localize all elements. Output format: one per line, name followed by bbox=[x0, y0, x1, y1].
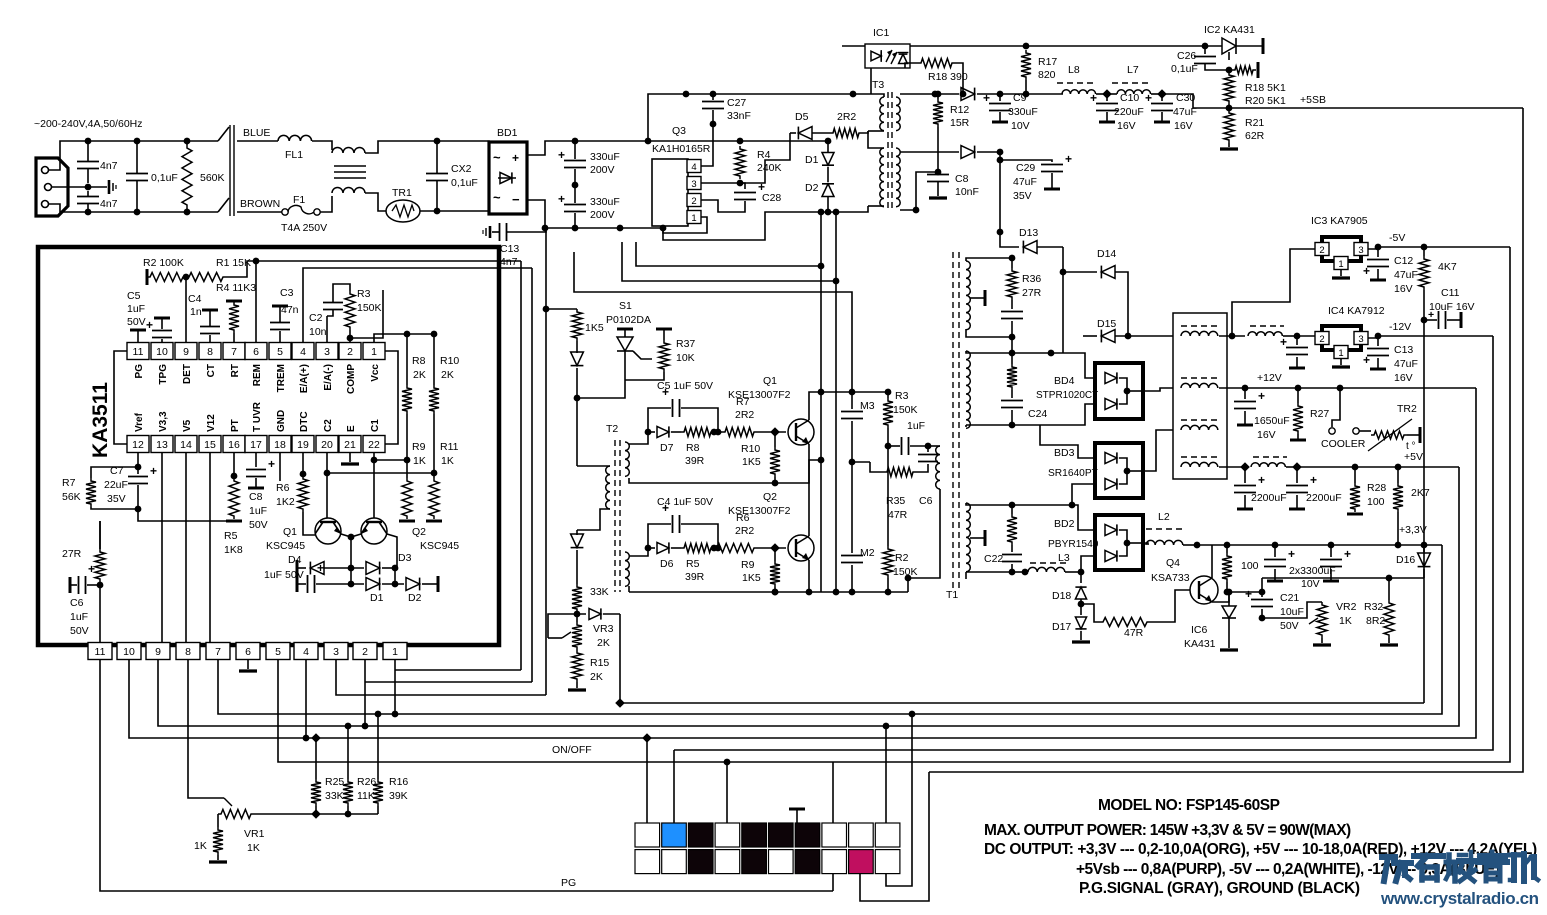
svg-text:Vcc: Vcc bbox=[370, 364, 381, 382]
svg-text:MAX. OUTPUT POWER: 145W +3,3V: MAX. OUTPUT POWER: 145W +3,3V & 5V = 90W… bbox=[984, 822, 1351, 839]
KA3511 pin 14 V5 bbox=[175, 436, 197, 453]
svg-text:D17: D17 bbox=[1052, 621, 1071, 633]
wire bus ON/OFF right bbox=[833, 247, 1510, 762]
KA3511 pin 15 V12 bbox=[199, 436, 221, 453]
svg-text:10uF: 10uF bbox=[1280, 606, 1304, 618]
wire IC body right bbox=[385, 351, 398, 444]
wire T2 primary bottom bbox=[577, 509, 610, 530]
svg-text:S1: S1 bbox=[619, 300, 632, 312]
svg-text:STPR1020CT: STPR1020CT bbox=[1036, 390, 1098, 401]
svg-text:ON/OFF: ON/OFF bbox=[552, 744, 592, 756]
svg-text:D1: D1 bbox=[370, 592, 384, 604]
svg-text:DC OUTPUT: +3,3V --- 0,2-10,0A: DC OUTPUT: +3,3V --- 0,2-10,0A(ORG), +5V… bbox=[984, 841, 1537, 858]
svg-text:KSE13007F2: KSE13007F2 bbox=[728, 389, 791, 401]
wire grid col2 stub bbox=[673, 750, 675, 823]
svg-text:VR3: VR3 bbox=[593, 623, 614, 635]
junction bbox=[1242, 385, 1249, 392]
svg-text:L7: L7 bbox=[1127, 64, 1139, 76]
svg-text:R28: R28 bbox=[1367, 482, 1386, 494]
wire pin11 PG bbox=[137, 331, 139, 342]
svg-text:1uF: 1uF bbox=[127, 303, 145, 315]
svg-text:2K: 2K bbox=[597, 637, 610, 649]
svg-text:47R: 47R bbox=[1124, 627, 1144, 639]
svg-text:D2: D2 bbox=[408, 592, 422, 604]
wire bbox=[701, 124, 713, 166]
T1 winding3 tap bbox=[970, 537, 984, 539]
wire +12V rail bbox=[1219, 387, 1476, 389]
svg-text:0,1uF: 0,1uF bbox=[451, 177, 478, 189]
svg-text:GND: GND bbox=[276, 410, 287, 432]
svg-text:+: + bbox=[1090, 91, 1097, 105]
wire bbox=[327, 472, 434, 474]
svg-text:BROWN: BROWN bbox=[240, 198, 280, 210]
junction bbox=[1226, 105, 1233, 112]
KA3511 pin 13 V3,3 bbox=[151, 436, 173, 453]
svg-text:8R2: 8R2 bbox=[1366, 615, 1385, 627]
wire top rail bbox=[686, 93, 853, 95]
wire bbox=[740, 133, 790, 183]
ground bbox=[1228, 143, 1230, 147]
svg-text:4n7: 4n7 bbox=[100, 160, 118, 172]
svg-text:CX2: CX2 bbox=[451, 163, 472, 175]
svg-text:-5V: -5V bbox=[1389, 232, 1405, 244]
connector pin 11 bbox=[88, 643, 112, 660]
wire bbox=[88, 140, 137, 142]
svg-text:Q2: Q2 bbox=[412, 526, 426, 538]
KA3511 pin 3 E/A(-) bbox=[316, 343, 338, 360]
svg-text:+: + bbox=[558, 148, 565, 162]
svg-text:50V: 50V bbox=[1280, 620, 1299, 632]
svg-text:10nF: 10nF bbox=[955, 186, 979, 198]
svg-text:+: + bbox=[512, 151, 519, 165]
KA3511 pin 2 COMP bbox=[339, 343, 361, 360]
connector pin 7 bbox=[206, 643, 230, 660]
wire bbox=[237, 140, 278, 142]
junction bbox=[825, 209, 832, 216]
wire bbox=[99, 521, 101, 549]
svg-text:T1: T1 bbox=[946, 589, 958, 601]
svg-text:Q4: Q4 bbox=[1166, 557, 1180, 569]
svg-text:R10: R10 bbox=[741, 443, 760, 455]
svg-text:+: + bbox=[88, 562, 95, 576]
wire pin1 riser bbox=[520, 261, 522, 670]
wire BD4 top input bbox=[966, 351, 1095, 378]
junction bbox=[617, 225, 624, 232]
svg-text:1uF: 1uF bbox=[249, 505, 267, 517]
svg-text:R1 15K: R1 15K bbox=[216, 257, 251, 269]
wire bbox=[576, 398, 578, 466]
svg-text:D2: D2 bbox=[805, 182, 819, 194]
svg-text:T3: T3 bbox=[872, 79, 884, 91]
svg-text:~: ~ bbox=[493, 150, 501, 165]
wire -12V path bbox=[1219, 335, 1245, 337]
wire BD3 in bot bbox=[1072, 484, 1095, 505]
junction bbox=[683, 91, 690, 98]
svg-text:C6: C6 bbox=[70, 597, 84, 609]
svg-text:E: E bbox=[346, 425, 357, 432]
svg-text:+: + bbox=[1310, 473, 1317, 487]
wire bbox=[1096, 93, 1107, 95]
svg-text:7: 7 bbox=[215, 646, 221, 658]
svg-text:L2: L2 bbox=[1158, 511, 1170, 523]
wire pin9 DET bbox=[185, 277, 187, 342]
svg-text:R18 5K1: R18 5K1 bbox=[1245, 82, 1286, 94]
wire bbox=[999, 160, 1001, 232]
capacitor 0,1uF bbox=[126, 173, 148, 175]
wire bbox=[701, 200, 745, 212]
wire bbox=[387, 534, 397, 568]
capacitor CX2 bbox=[426, 173, 448, 175]
T1 secondary winding 1 bbox=[966, 261, 970, 330]
svg-text:IC1: IC1 bbox=[873, 27, 890, 39]
wire bbox=[648, 94, 686, 141]
junction bbox=[660, 225, 667, 232]
connector pin 9 bbox=[146, 643, 170, 660]
svg-text:2K: 2K bbox=[413, 369, 426, 381]
svg-text:R9: R9 bbox=[412, 441, 426, 453]
wire pin1 Vcc bbox=[374, 334, 434, 342]
wire T1 primary bottom bbox=[908, 489, 940, 578]
Q3 pin 2 bbox=[687, 194, 701, 207]
wire pin8 VR1 route bbox=[188, 660, 224, 798]
KA3511 pin 1 Vcc bbox=[363, 343, 385, 360]
svg-text:1n: 1n bbox=[190, 306, 202, 318]
junction bbox=[1202, 43, 1209, 50]
svg-text:4n7: 4n7 bbox=[500, 256, 518, 268]
svg-text:+: + bbox=[150, 464, 157, 478]
svg-text:2: 2 bbox=[1319, 334, 1324, 345]
KA3511 pin 16 PT bbox=[223, 436, 245, 453]
svg-text:13: 13 bbox=[156, 439, 168, 451]
wire T2 primary top bbox=[577, 465, 610, 467]
svg-text:~: ~ bbox=[493, 190, 501, 205]
svg-text:R9: R9 bbox=[741, 559, 755, 571]
svg-text:KSC945: KSC945 bbox=[266, 540, 305, 552]
svg-text:BD2: BD2 bbox=[1054, 518, 1075, 530]
wire bus y750 bbox=[674, 336, 1493, 750]
svg-text:P0102DA: P0102DA bbox=[606, 314, 651, 326]
svg-text:R6: R6 bbox=[276, 482, 290, 494]
resistor R4 240K bbox=[735, 146, 745, 179]
svg-text:+: + bbox=[1288, 547, 1295, 561]
wire pin3 route bbox=[336, 660, 546, 695]
junction bbox=[932, 91, 939, 98]
svg-text:2: 2 bbox=[347, 346, 353, 358]
svg-text:C8: C8 bbox=[955, 173, 969, 185]
svg-text:5: 5 bbox=[277, 346, 283, 358]
svg-text:COMP: COMP bbox=[346, 364, 357, 394]
svg-text:R8: R8 bbox=[686, 442, 700, 454]
KA3511 pin 20 C2 bbox=[316, 436, 338, 453]
capacitor 4n7 top bbox=[87, 141, 89, 161]
KA3511 pin 9 DET bbox=[175, 343, 197, 360]
svg-text:4: 4 bbox=[300, 346, 306, 358]
svg-text:62R: 62R bbox=[1245, 130, 1265, 142]
svg-text:47R: 47R bbox=[888, 509, 908, 521]
wire w3 top to BD2 bbox=[1012, 505, 1095, 530]
svg-text:1: 1 bbox=[1338, 348, 1343, 359]
wire bbox=[900, 172, 938, 210]
junction bbox=[404, 331, 411, 338]
svg-text:1uF: 1uF bbox=[907, 420, 925, 432]
wire bbox=[619, 614, 621, 703]
svg-text:BD3: BD3 bbox=[1054, 447, 1075, 459]
output choke box bbox=[1173, 313, 1227, 479]
svg-text:47uF: 47uF bbox=[1394, 358, 1418, 370]
svg-text:27R: 27R bbox=[1022, 287, 1042, 299]
svg-text:9: 9 bbox=[155, 646, 161, 658]
svg-text:Q1: Q1 bbox=[283, 526, 297, 538]
wire T1 w3 bottom bbox=[966, 571, 1012, 573]
junction bbox=[997, 149, 1004, 156]
capacitor (R36 snub) bbox=[1011, 300, 1013, 309]
svg-text:3: 3 bbox=[324, 346, 330, 358]
wire bbox=[49, 141, 88, 170]
svg-text:1K5: 1K5 bbox=[742, 456, 761, 468]
svg-text:+: + bbox=[1145, 91, 1152, 105]
svg-text:220uF: 220uF bbox=[1114, 106, 1144, 118]
svg-text:C2: C2 bbox=[309, 312, 323, 324]
wire pin2 COMP bbox=[350, 290, 383, 342]
svg-text:C22: C22 bbox=[984, 553, 1003, 565]
capacitor C10 bbox=[1106, 94, 1108, 101]
ground conn pin6 bbox=[247, 660, 249, 669]
svg-text:10n: 10n bbox=[309, 326, 327, 338]
wire bbox=[868, 130, 884, 132]
junction bbox=[997, 229, 1004, 236]
wire drive bottom rail bbox=[629, 591, 908, 593]
svg-text:REM: REM bbox=[252, 364, 263, 386]
svg-text:35V: 35V bbox=[107, 493, 126, 505]
svg-text:KSE13007F2: KSE13007F2 bbox=[728, 505, 791, 517]
svg-text:2K: 2K bbox=[441, 369, 454, 381]
KA3511 pin 10 TPG bbox=[151, 343, 173, 360]
svg-text:C10: C10 bbox=[1120, 92, 1139, 104]
svg-text:C21: C21 bbox=[1280, 592, 1299, 604]
svg-text:+12V: +12V bbox=[1257, 372, 1282, 384]
thermistor TR1 bbox=[386, 200, 420, 222]
wire BD4 to choke bbox=[1143, 388, 1173, 391]
svg-text:3: 3 bbox=[333, 646, 339, 658]
connector pin 6 bbox=[236, 643, 260, 660]
svg-text:18: 18 bbox=[274, 439, 286, 451]
svg-text:~200-240V,4A,50/60Hz: ~200-240V,4A,50/60Hz bbox=[34, 118, 143, 130]
wire grid col10 stub bbox=[885, 726, 887, 823]
wire bbox=[187, 140, 218, 142]
wire bbox=[629, 548, 648, 556]
capacitor C13 4n7 bbox=[499, 223, 501, 241]
svg-text:D15: D15 bbox=[1097, 318, 1116, 330]
svg-text:12: 12 bbox=[132, 439, 144, 451]
svg-text:D5: D5 bbox=[795, 111, 809, 123]
capacitor C29 bbox=[999, 152, 1001, 160]
wire bbox=[966, 503, 1012, 505]
svg-text:+: + bbox=[146, 318, 153, 332]
svg-text:+: + bbox=[268, 457, 275, 471]
svg-text:+: + bbox=[1065, 152, 1072, 166]
T1 winding1 tap bbox=[970, 297, 984, 299]
svg-text:5: 5 bbox=[275, 646, 281, 658]
wire bbox=[577, 351, 625, 398]
wire IC3 input bbox=[1232, 249, 1315, 336]
svg-text:1uF: 1uF bbox=[70, 611, 88, 623]
svg-text:C4: C4 bbox=[188, 293, 202, 305]
KA3511 pin 8 CT bbox=[199, 343, 221, 360]
junction bbox=[997, 91, 1004, 98]
wire bbox=[1229, 578, 1262, 592]
wire grid col8 stub bbox=[832, 762, 834, 823]
svg-text:3: 3 bbox=[1358, 334, 1363, 345]
svg-text:D13: D13 bbox=[1019, 227, 1038, 239]
svg-text:R8: R8 bbox=[412, 355, 426, 367]
wire pin12 Vref bbox=[137, 453, 139, 467]
choke winding -12V bbox=[1181, 325, 1219, 327]
svg-text:39R: 39R bbox=[685, 571, 705, 583]
junction bbox=[1375, 333, 1382, 340]
watermark hanzi shi bbox=[1414, 853, 1443, 859]
svg-text:1K8: 1K8 bbox=[224, 544, 243, 556]
KA3511 pin 21 E bbox=[339, 436, 361, 453]
wire +3,3V rail bbox=[1197, 544, 1442, 546]
wire grid col1 stub bbox=[646, 738, 648, 823]
svg-text:BLUE: BLUE bbox=[243, 127, 270, 139]
KA3511 pin 19 DTC bbox=[292, 436, 314, 453]
resistor R18/R20 5K1 bbox=[1224, 72, 1234, 104]
svg-text:16V: 16V bbox=[1174, 120, 1193, 132]
T1 secondary winding 2 bbox=[966, 351, 970, 428]
wire bbox=[365, 141, 437, 153]
wire pin4 EA+ bbox=[303, 268, 532, 342]
svg-text:VR1: VR1 bbox=[244, 828, 265, 840]
wire bbox=[966, 258, 1012, 261]
wire bbox=[1162, 94, 1232, 108]
svg-text:D18: D18 bbox=[1052, 590, 1071, 602]
junction bbox=[1240, 462, 1250, 472]
wire pin13 V3,3 bbox=[161, 453, 163, 643]
watermark hanzi ji bbox=[1510, 853, 1519, 858]
junction bbox=[1157, 89, 1167, 99]
svg-text:C3: C3 bbox=[280, 287, 294, 299]
svg-text:4K7: 4K7 bbox=[1438, 261, 1457, 273]
svg-text:20: 20 bbox=[321, 439, 333, 451]
junction bbox=[1352, 464, 1359, 471]
junction bbox=[913, 207, 920, 214]
Q3 pin 4 bbox=[687, 160, 701, 173]
inductor (-12V LC) bbox=[1250, 325, 1284, 327]
wire bbox=[629, 432, 648, 444]
svg-text:10: 10 bbox=[156, 346, 168, 358]
resistor 560K bbox=[182, 145, 192, 208]
wire BD3 out bbox=[1143, 430, 1173, 471]
junction bbox=[833, 589, 840, 596]
wire bbox=[629, 478, 775, 483]
svg-text:PG: PG bbox=[561, 877, 576, 889]
svg-text:PBYR1540: PBYR1540 bbox=[1048, 539, 1099, 550]
svg-text:1: 1 bbox=[691, 213, 696, 224]
svg-text:150K: 150K bbox=[893, 404, 918, 416]
wire grid col10 bottom route bbox=[886, 714, 912, 886]
svg-text:T2: T2 bbox=[606, 423, 618, 435]
svg-text:R3: R3 bbox=[895, 390, 909, 402]
junction bbox=[1259, 589, 1266, 596]
wire bbox=[1026, 45, 1205, 47]
capacitor C8 10nF bbox=[927, 174, 949, 176]
svg-text:R2 100K: R2 100K bbox=[143, 257, 184, 269]
ground bbox=[929, 196, 947, 199]
svg-text:1K: 1K bbox=[413, 455, 426, 467]
capacitor C26 bbox=[1204, 46, 1206, 54]
svg-text:6: 6 bbox=[245, 646, 251, 658]
wire pin4 route bbox=[305, 660, 307, 738]
svg-text:+: + bbox=[1258, 389, 1265, 403]
svg-text:MODEL NO: FSP145-60SP: MODEL NO: FSP145-60SP bbox=[1098, 797, 1280, 814]
junction bbox=[574, 611, 581, 618]
svg-text:+: + bbox=[662, 501, 669, 515]
wire bbox=[1183, 544, 1197, 546]
wire bbox=[821, 391, 852, 393]
svg-text:V5: V5 bbox=[182, 419, 193, 432]
capacitor 3300uF a bbox=[1274, 545, 1276, 557]
wire bbox=[437, 141, 489, 153]
junction bbox=[434, 138, 441, 145]
wire bbox=[828, 206, 868, 212]
svg-text:33nF: 33nF bbox=[727, 110, 751, 122]
resistor R18 390 bbox=[905, 63, 918, 68]
KA3511 pin 4 E/A(+) bbox=[292, 343, 314, 360]
svg-text:8: 8 bbox=[185, 646, 191, 658]
svg-text:10: 10 bbox=[123, 646, 135, 658]
svg-text:200V: 200V bbox=[590, 164, 615, 176]
wire bus y772 bbox=[929, 108, 1523, 772]
svg-text:IC2 KA431: IC2 KA431 bbox=[1204, 24, 1255, 36]
wire bbox=[1286, 466, 1297, 468]
wire bbox=[99, 585, 101, 643]
svg-text:2R2: 2R2 bbox=[735, 409, 754, 421]
wire bbox=[527, 141, 575, 155]
KA3511 pin 5 TREM bbox=[269, 343, 291, 360]
wire bbox=[1000, 93, 1063, 95]
wire T2 sec bottom left bbox=[628, 586, 630, 592]
wire pin10 route bbox=[129, 660, 306, 738]
wire grid col8 PG stub bbox=[832, 874, 834, 891]
svg-text:0,1uF: 0,1uF bbox=[1171, 63, 1198, 75]
diode (drive) bbox=[571, 352, 584, 366]
junction bbox=[645, 545, 652, 552]
junction bbox=[1386, 575, 1393, 582]
wire M3 feed bbox=[574, 252, 852, 392]
capacitor C30 bbox=[1161, 94, 1163, 101]
svg-text:39K: 39K bbox=[389, 790, 408, 802]
svg-text:VR2: VR2 bbox=[1336, 601, 1357, 613]
svg-text:150K: 150K bbox=[893, 566, 918, 578]
KA3511 pin 11 PG bbox=[127, 343, 149, 360]
svg-text:TPG: TPG bbox=[158, 364, 169, 385]
svg-text:PT: PT bbox=[230, 419, 241, 432]
wire bbox=[394, 568, 396, 584]
svg-text:2R2: 2R2 bbox=[837, 111, 856, 123]
svg-text:R3: R3 bbox=[357, 288, 371, 300]
wire pin1 route bbox=[394, 660, 396, 714]
resistor (IC2 bias) bbox=[1232, 66, 1256, 74]
junction bbox=[645, 138, 652, 145]
svg-text:21: 21 bbox=[344, 439, 356, 451]
svg-text:330uF: 330uF bbox=[590, 151, 620, 163]
wire bbox=[341, 534, 361, 537]
svg-text:TREM: TREM bbox=[276, 364, 287, 392]
svg-text:1K5: 1K5 bbox=[585, 322, 604, 334]
svg-text:D1: D1 bbox=[805, 154, 819, 166]
T1 core bbox=[952, 252, 954, 590]
